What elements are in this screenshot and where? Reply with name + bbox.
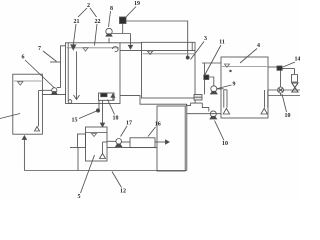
valve line right bbox=[281, 69, 295, 88]
overflow hook tank2 bbox=[112, 47, 118, 52]
wire right bottom pipe bbox=[268, 95, 300, 97]
wire outlet box to return bbox=[187, 100, 203, 105]
sludge line with node bbox=[96, 100, 99, 112]
svg-text:6: 6 bbox=[22, 55, 25, 61]
wire dosing drop arrow bbox=[128, 34, 132, 50]
wire return to tank1 bbox=[22, 136, 26, 171]
label 14 bbox=[283, 57, 301, 68]
svg-text:9: 9 bbox=[233, 82, 236, 88]
label 4 bbox=[240, 43, 260, 63]
flow meter 19 bbox=[120, 17, 127, 24]
label 11 bbox=[205, 40, 225, 75]
wire right top pipe bbox=[268, 89, 300, 91]
pump 9 bbox=[209, 77, 221, 94]
label 10 lower bbox=[215, 121, 229, 148]
wire under box16 bbox=[107, 147, 157, 149]
pipe tank3 to tank4 top bbox=[202, 62, 221, 64]
tank 3 bbox=[142, 42, 196, 98]
svg-text:5: 5 bbox=[78, 194, 81, 200]
tank 4 bbox=[221, 57, 268, 118]
sludge pump box 18 bbox=[99, 93, 115, 100]
svg-text:18: 18 bbox=[113, 116, 119, 122]
wire pump8 to meter bbox=[112, 24, 130, 34]
svg-text:10: 10 bbox=[285, 113, 291, 119]
label 10 right bbox=[282, 94, 291, 119]
box 14 bbox=[268, 66, 282, 70]
wire return riser bbox=[186, 104, 188, 170]
svg-text:22: 22 bbox=[95, 19, 101, 25]
node dot tank4 bbox=[229, 70, 231, 72]
valve bowtie bbox=[292, 83, 298, 92]
wire tank1 outlet bbox=[43, 89, 52, 91]
dosing box tank5 left bbox=[70, 134, 86, 171]
internal downflow arrow in 21 bbox=[74, 52, 80, 100]
svg-text:12: 12 bbox=[120, 189, 126, 195]
wire pump6 discharge bbox=[57, 46, 66, 88]
diffuser triangle left bbox=[223, 108, 229, 114]
svg-text:21: 21 bbox=[74, 19, 80, 25]
pump 6 bbox=[42, 88, 66, 95]
tank 5 bbox=[86, 127, 108, 161]
tank 1 bbox=[13, 74, 43, 134]
svg-text:14: 14 bbox=[295, 57, 301, 63]
wire meter to tank3 bbox=[126, 21, 189, 59]
label 22 leader bbox=[95, 19, 101, 46]
svg-text:3: 3 bbox=[204, 36, 207, 42]
standpipe in tank 1 bbox=[35, 91, 43, 132]
node 1 leader bbox=[0, 114, 20, 119]
wire trough lip bbox=[120, 50, 142, 52]
label 8 bbox=[109, 6, 114, 27]
svg-text:7: 7 bbox=[38, 46, 41, 52]
label 17 bbox=[121, 121, 133, 137]
wire sludge to tank5 bbox=[100, 100, 104, 127]
label 15 bbox=[72, 111, 97, 124]
tank 2 bbox=[66, 43, 121, 104]
diffuser triangle right bbox=[261, 108, 267, 114]
wire hook to tank3 bbox=[120, 42, 142, 44]
pump 10 lower bbox=[210, 111, 217, 119]
valve 10 circle bbox=[278, 87, 284, 93]
label 3 bbox=[191, 36, 208, 60]
wire basin suction / return bbox=[187, 113, 221, 115]
outlet box tank3 bbox=[194, 95, 202, 101]
svg-text:15: 15 bbox=[72, 118, 78, 124]
label 7 bbox=[38, 46, 61, 62]
sparger manifold bbox=[217, 89, 268, 108]
svg-text:4: 4 bbox=[257, 43, 260, 49]
svg-text:17: 17 bbox=[126, 121, 132, 127]
svg-text:19: 19 bbox=[134, 1, 140, 7]
label 18 bbox=[108, 100, 119, 122]
drain circle tank2 bbox=[68, 100, 72, 104]
label 19 bbox=[126, 1, 141, 18]
arrow after box16 bbox=[155, 140, 169, 144]
box 16 bbox=[122, 138, 156, 148]
svg-text:16: 16 bbox=[155, 122, 161, 128]
wire long return pipe bbox=[24, 170, 186, 172]
label 5 bbox=[78, 155, 95, 200]
wire tank2 bottom to box12 bbox=[120, 96, 186, 106]
svg-text:2: 2 bbox=[87, 3, 90, 9]
flow meter 11 bbox=[204, 63, 209, 95]
label 16 bbox=[148, 122, 161, 137]
label 21 leader bbox=[71, 19, 80, 50]
label 6 bbox=[22, 55, 55, 88]
svg-text:11: 11 bbox=[219, 40, 225, 46]
elbow to pump 10 bbox=[202, 103, 209, 111]
wire valve to bottom pipe bbox=[280, 93, 282, 96]
label 2 with fork bbox=[78, 3, 97, 17]
svg-text:10: 10 bbox=[222, 141, 228, 147]
box 12 bbox=[157, 106, 185, 171]
pump 17 bbox=[107, 139, 122, 147]
pump 8 bbox=[106, 28, 112, 43]
tank5 standpipe bbox=[100, 142, 108, 159]
rotameter funnel bbox=[292, 75, 298, 83]
label 12 bbox=[112, 172, 126, 195]
label 9 bbox=[218, 82, 236, 89]
